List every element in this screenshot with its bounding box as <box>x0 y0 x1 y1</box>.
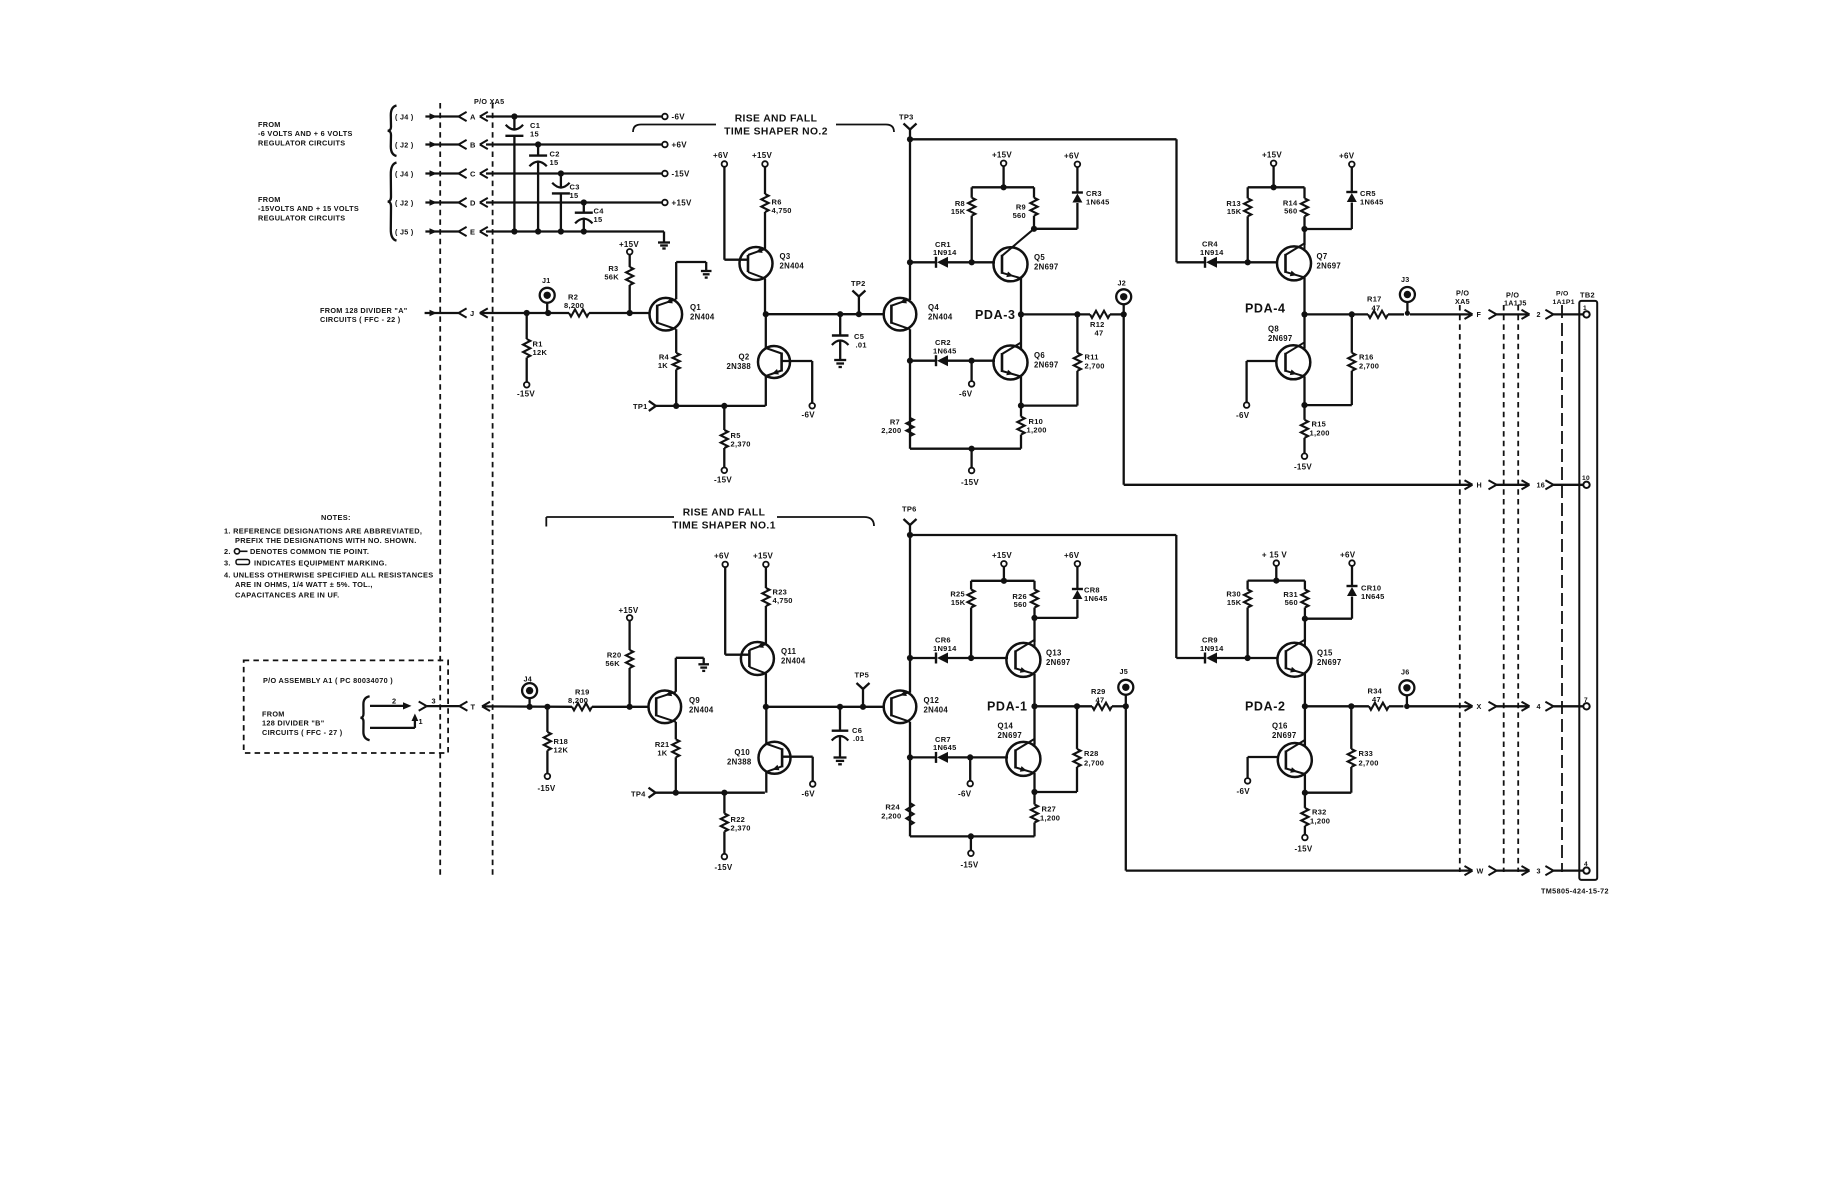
wire Q7 emitter to PDA-4 node <box>1301 277 1307 348</box>
wire +6V to Q11 base <box>725 567 749 655</box>
wire Q13 emitter to PDA-1 node <box>1031 674 1037 745</box>
svg-text:X: X <box>1477 702 1482 711</box>
terminal -15V (PDA-1) <box>960 851 978 870</box>
svg-text:CIRCUITS ( FFC - 22 ): CIRCUITS ( FFC - 22 ) <box>320 315 401 324</box>
diode CR7 1N645 <box>910 735 970 763</box>
svg-text:P/O ASSEMBLY A1 ( PC 8003407: P/O ASSEMBLY A1 ( PC 80034070 ) <box>263 676 393 685</box>
diode CR9 1N914 <box>1176 636 1247 664</box>
svg-text:-6V: -6V <box>1237 787 1251 796</box>
terminal +6V (CR8) <box>1064 551 1080 567</box>
svg-text:-15V: -15V <box>714 863 732 872</box>
svg-text:REGULATOR CIRCUITS: REGULATOR CIRCUITS <box>258 213 345 222</box>
svg-text:+6V: +6V <box>1340 551 1356 560</box>
wire TP6 rail to PDA-2 <box>907 532 1176 658</box>
svg-text:2N697: 2N697 <box>1272 731 1296 740</box>
resistor R18 12K <box>544 707 569 774</box>
terminal -15V (R1) <box>517 382 535 399</box>
svg-text:1N914: 1N914 <box>1200 644 1224 653</box>
svg-text:560: 560 <box>1014 600 1027 609</box>
wire Q10 base to -6V <box>782 757 813 782</box>
resistor R33 2,700 <box>1348 706 1379 792</box>
TB2 terminal 10 <box>1582 475 1590 488</box>
note 2 tie point glyph <box>234 549 247 554</box>
svg-text:+ 15 V: + 15 V <box>1262 551 1288 560</box>
resistor R8 15K <box>951 198 975 263</box>
jack J4 <box>522 675 537 707</box>
resistor R25 15K <box>950 590 974 659</box>
test point TP6 <box>902 505 917 536</box>
svg-text:J6: J6 <box>1401 668 1410 677</box>
svg-text:+15V: +15V <box>672 199 692 208</box>
wire Q8 base to -6V <box>1247 361 1277 402</box>
svg-text:CAPACITANCES ARE IN UF.: CAPACITANCES ARE IN UF. <box>235 591 339 600</box>
svg-text:+15V: +15V <box>753 552 773 561</box>
capacitor C4 15 <box>575 203 604 232</box>
svg-text:( J4 ): ( J4 ) <box>395 113 414 122</box>
svg-text:1N645: 1N645 <box>1361 592 1385 601</box>
arrow 1 (assembly box) <box>370 714 423 728</box>
wire Q15 emitter to PDA-2 node <box>1302 674 1308 746</box>
diode CR5 1N645 <box>1346 167 1383 206</box>
wire CR6 node to Q13 base <box>968 655 1008 661</box>
svg-text:A: A <box>470 113 476 122</box>
resistor R9 560 <box>1013 198 1038 229</box>
wire Q2 emitter <box>765 376 767 406</box>
transistor Q5 2N697 <box>994 229 1059 281</box>
notes text block <box>224 513 434 600</box>
svg-text:+6V: +6V <box>672 141 688 150</box>
resistor R12 47 <box>1090 311 1124 338</box>
svg-text:J1: J1 <box>542 276 551 285</box>
svg-text:Q15: Q15 <box>1317 649 1333 658</box>
svg-text:PREFIX THE DESIGNATIONS WIT: PREFIX THE DESIGNATIONS WITH NO. SHOWN. <box>235 536 417 545</box>
wire Q10/Q11 node to Q12 base <box>766 704 884 710</box>
wire Q2 collector <box>763 311 769 348</box>
svg-text:2N697: 2N697 <box>1317 262 1341 271</box>
resistor R7 2,200 <box>881 418 913 437</box>
svg-text:56K: 56K <box>605 659 620 668</box>
wire Q9 emitter to ground <box>676 658 704 692</box>
wire CR9 node to Q15 base <box>1245 655 1279 661</box>
svg-text:2: 2 <box>392 696 396 705</box>
svg-text:-15V: -15V <box>517 390 535 399</box>
terminal -6V (Q6 base) <box>959 381 974 398</box>
svg-text:2,200: 2,200 <box>881 426 901 435</box>
terminal -15V (R22) <box>714 854 732 872</box>
wire Q16 base to -6V <box>1248 757 1278 778</box>
capacitor C1 15 <box>505 117 540 232</box>
terminal +15V (PDA-4) <box>1262 151 1282 167</box>
resistor R6 4,750 <box>761 167 791 249</box>
svg-text:TP1: TP1 <box>633 402 648 411</box>
wire Q8 emitter to R16 node <box>1301 376 1351 408</box>
terminal -6V (Q16) <box>1237 778 1251 796</box>
svg-text:TIME SHAPER NO.1: TIME SHAPER NO.1 <box>672 521 776 532</box>
arrow 2 (assembly box) <box>370 696 412 709</box>
svg-text:CIRCUITS ( FFC - 27 ): CIRCUITS ( FFC - 27 ) <box>262 728 343 737</box>
terminal board TB2 outline <box>1579 291 1597 880</box>
wire Q6 emitter to R10 node <box>1018 377 1078 409</box>
wire row E ground bus <box>486 228 664 242</box>
resistor R29 47 <box>1091 687 1126 710</box>
svg-text:-15VOLTS AND + 15 VOLTS: -15VOLTS AND + 15 VOLTS <box>258 204 359 213</box>
wire Q2/Q3 node to Q4 base <box>766 311 884 317</box>
diode CR4 1N914 <box>1177 240 1248 268</box>
wire Q3 collector to node <box>764 279 766 315</box>
transistor Q12 2N404 <box>884 691 949 724</box>
svg-text:Q1: Q1 <box>690 303 701 312</box>
wire PDA-4 output <box>1305 311 1369 317</box>
svg-text:TP5: TP5 <box>855 671 870 680</box>
svg-text:P/O: P/O <box>1556 291 1569 298</box>
svg-text:R11: R11 <box>1085 353 1099 362</box>
svg-text:1A1P1: 1A1P1 <box>1553 299 1575 306</box>
terminal +15V (R3) <box>619 240 639 255</box>
svg-text:56K: 56K <box>604 272 619 281</box>
svg-text:R33: R33 <box>1359 749 1374 758</box>
test point TP4 <box>631 788 656 799</box>
terminal +6V (CR10) <box>1340 551 1356 566</box>
svg-text:Q16: Q16 <box>1272 722 1288 731</box>
svg-text:+15V: +15V <box>618 606 638 615</box>
note 3 equipment marking glyph <box>236 560 250 565</box>
title RISE AND FALL TIME SHAPER NO.1 <box>546 508 874 532</box>
wire R26 junction to Q13 collector <box>1033 618 1035 642</box>
svg-text:1N645: 1N645 <box>933 347 957 356</box>
svg-text:-6V: -6V <box>802 411 816 420</box>
svg-text:R32: R32 <box>1312 808 1327 817</box>
svg-text:2N697: 2N697 <box>1046 658 1070 667</box>
resistor R30 15K <box>1226 590 1251 659</box>
svg-text:12K: 12K <box>554 745 569 754</box>
wire PDA-1 supply rail <box>971 567 1034 590</box>
wire X output line <box>1410 705 1473 707</box>
transistor Q16 2N697 <box>1272 722 1312 778</box>
label FROM -15VOLTS AND +15VOLTS REGULATOR CIRCUITS <box>258 195 359 222</box>
transistor Q1 2N404 <box>650 298 715 331</box>
svg-text:+6V: +6V <box>1064 551 1080 560</box>
svg-text:4. UNLESS OTHERWISE SPECIFI: 4. UNLESS OTHERWISE SPECIFIED ALL RESIST… <box>224 571 434 580</box>
TB2 terminal 7 <box>1583 697 1589 710</box>
svg-text:J5: J5 <box>1120 667 1129 676</box>
terminal +15V (PDA-3) <box>992 151 1012 167</box>
svg-text:128 DIVIDER "B": 128 DIVIDER "B" <box>262 719 325 728</box>
output connector row F / 2 <box>1465 310 1584 319</box>
title RISE AND FALL TIME SHAPER NO.2 <box>633 114 894 138</box>
input connector pin B from J2 <box>395 140 488 150</box>
svg-text:( J4 ): ( J4 ) <box>395 170 414 179</box>
wire R31/CR10 node to Q15 <box>1302 597 1352 622</box>
svg-text:2N388: 2N388 <box>727 362 752 371</box>
svg-text:2N697: 2N697 <box>1034 361 1058 370</box>
resistor R32 1,200 <box>1301 793 1330 835</box>
resistor R11 2,700 <box>1074 314 1105 405</box>
wire R9/CR3 node to Q5 collector <box>1031 203 1078 232</box>
svg-text:2.: 2. <box>224 547 231 556</box>
wire Q5 emitter to PDA-3 node <box>1018 278 1024 349</box>
svg-text:Q8: Q8 <box>1268 325 1279 334</box>
wire TP6 down to CR6 node <box>907 535 913 693</box>
terminal +15V (R23) <box>753 552 773 568</box>
resistor R23 4,750 <box>762 567 792 644</box>
svg-text:-6 VOLTS AND + 6 VOLTS: -6 VOLTS AND + 6 VOLTS <box>258 129 353 138</box>
wire row B bus <box>486 141 662 147</box>
resistor R22 2,370 <box>721 793 751 854</box>
wire CR7 node to Q14 base; -6V stub <box>967 754 1008 780</box>
svg-text:15K: 15K <box>1227 207 1242 216</box>
svg-text:2,370: 2,370 <box>731 439 751 448</box>
svg-text:-15V: -15V <box>1294 845 1312 854</box>
svg-text:INDICATES EQUIPMENT MARKING.: INDICATES EQUIPMENT MARKING. <box>254 559 387 568</box>
resistor R26 560 <box>1012 590 1038 618</box>
svg-text:2N697: 2N697 <box>1034 262 1058 271</box>
transistor Q10 2N388 <box>727 742 790 774</box>
svg-text:15: 15 <box>530 129 539 138</box>
svg-text:PDA-1: PDA-1 <box>987 700 1028 714</box>
svg-text:XA5: XA5 <box>1455 297 1470 306</box>
diode CR3 1N645 <box>1072 167 1110 206</box>
svg-text:J2: J2 <box>1118 279 1127 288</box>
svg-text:+6V: +6V <box>1064 152 1080 161</box>
output connector row X / 4 <box>1465 702 1584 711</box>
svg-text:2,370: 2,370 <box>731 823 751 832</box>
svg-text:15: 15 <box>594 215 603 224</box>
tie point +15V <box>662 199 692 208</box>
ground symbol (E bus) <box>658 243 670 249</box>
wire TP3 rail to PDA-4 <box>907 136 1177 262</box>
svg-text:Q10: Q10 <box>734 748 750 757</box>
svg-text:PDA-2: PDA-2 <box>1245 700 1286 714</box>
resistor R17 47 <box>1367 295 1404 319</box>
svg-text:-6V: -6V <box>959 390 973 399</box>
svg-text:Q7: Q7 <box>1317 252 1328 261</box>
terminal -15V (PDA-3) <box>961 468 979 487</box>
wire PDA-3 supply rail <box>972 166 1034 198</box>
svg-text:8,200: 8,200 <box>564 301 584 310</box>
svg-text:560: 560 <box>1013 211 1026 220</box>
svg-text:TB2: TB2 <box>1580 291 1595 300</box>
resistor R20 56K <box>605 621 633 707</box>
svg-text:15: 15 <box>570 191 579 200</box>
wire CR1 node to Q5 base <box>969 259 995 265</box>
svg-text:( J5 ): ( J5 ) <box>395 228 414 237</box>
svg-text:T: T <box>471 702 476 711</box>
svg-text:+6V: +6V <box>713 151 729 160</box>
terminal +15V (PDA-1) <box>992 551 1012 567</box>
wire PDA-1 output <box>1035 703 1093 709</box>
svg-text:D: D <box>470 199 476 208</box>
svg-text:C: C <box>470 170 476 179</box>
label FROM -6 VOLTS AND +6 VOLTS REGULATOR CIRCUITS <box>258 120 353 147</box>
wire CR2 node to Q6 base; -6V stub <box>969 358 996 382</box>
P/O XA5 dashed line (right) <box>1455 289 1470 873</box>
svg-text:J: J <box>470 309 474 318</box>
svg-text:E: E <box>470 228 475 237</box>
svg-text:2N388: 2N388 <box>727 758 752 767</box>
svg-text:2,700: 2,700 <box>1359 759 1379 768</box>
wire Q10 collector <box>765 707 767 744</box>
diode CR2 1N645 <box>910 338 972 366</box>
svg-text:FROM: FROM <box>262 710 285 719</box>
svg-text:+15V: +15V <box>992 151 1012 160</box>
svg-text:.01: .01 <box>856 340 867 349</box>
svg-text:R16: R16 <box>1359 353 1374 362</box>
svg-text:8,200: 8,200 <box>568 696 588 705</box>
svg-text:FROM: FROM <box>258 195 281 204</box>
svg-text:3: 3 <box>432 696 436 705</box>
ground symbol (Q1) <box>701 271 712 278</box>
input connector pin T <box>459 702 490 712</box>
wire PDA-2 supply rail <box>1248 566 1305 590</box>
P/O 1A1P1 dashed line <box>1553 291 1575 873</box>
TB2 terminal 4 <box>1583 861 1589 874</box>
svg-text:15K: 15K <box>1227 598 1242 607</box>
transistor Q2 2N388 <box>727 346 790 378</box>
svg-text:1N645: 1N645 <box>1086 197 1110 206</box>
svg-text:R17: R17 <box>1367 295 1382 304</box>
capacitor C2 15 <box>529 145 560 232</box>
svg-text:1K: 1K <box>658 361 668 370</box>
svg-text:2N697: 2N697 <box>1317 658 1341 667</box>
svg-text:( J2 ): ( J2 ) <box>395 199 414 208</box>
label FROM 128 DIVIDER B CIRCUITS (FFC-27) <box>262 710 343 737</box>
resistor R28 2,700 <box>1073 706 1104 792</box>
svg-text:4: 4 <box>1537 702 1541 711</box>
svg-text:4,750: 4,750 <box>772 206 792 215</box>
svg-text:-15V: -15V <box>672 170 690 179</box>
jack J6 and tie point <box>1399 668 1414 710</box>
wire PDA-3 bottom rail <box>910 446 1021 468</box>
resistor R21 1K <box>655 722 680 793</box>
ground symbol (Q9) <box>698 664 709 671</box>
svg-text:1N645: 1N645 <box>1084 594 1108 603</box>
svg-text:-15V: -15V <box>714 476 732 485</box>
wire PDA-1 bottom rail <box>910 833 1035 850</box>
svg-text:2,700: 2,700 <box>1359 361 1379 370</box>
jack J3 and tie point <box>1400 275 1415 316</box>
svg-text:2N404: 2N404 <box>690 313 715 322</box>
svg-text:3.: 3. <box>224 559 231 568</box>
svg-text:15: 15 <box>550 158 559 167</box>
svg-text:TP4: TP4 <box>631 790 646 799</box>
svg-text:560: 560 <box>1285 598 1298 607</box>
svg-text:-6V: -6V <box>958 790 972 799</box>
svg-text:+6V: +6V <box>1339 152 1355 161</box>
jack J1 <box>540 276 555 313</box>
svg-text:47: 47 <box>1372 303 1381 312</box>
terminal -6V (Q14 base) <box>958 781 973 799</box>
svg-text:-15V: -15V <box>961 478 979 487</box>
wire Q11 collector to node <box>763 674 769 710</box>
transistor Q14 2N697 <box>998 722 1041 776</box>
wire Q16 emitter to R33 node <box>1302 774 1352 796</box>
transistor Q3 2N404 <box>740 247 805 280</box>
test point TP3 <box>899 113 917 140</box>
wire PDA-2 output <box>1305 703 1369 709</box>
input connector pin D from J2 <box>395 198 488 208</box>
svg-text:15K: 15K <box>951 207 966 216</box>
svg-text:2N404: 2N404 <box>781 657 806 666</box>
svg-text:2,700: 2,700 <box>1084 759 1104 768</box>
resistor R10 1,200 <box>1017 406 1046 449</box>
terminal +6V (Q3 base) <box>713 151 729 167</box>
brace for J4/J2 group (rows A-B) <box>388 106 397 157</box>
diode CR1 1N914 <box>910 240 972 268</box>
svg-text:2N697: 2N697 <box>1268 334 1292 343</box>
resistor R4 1K <box>658 329 680 406</box>
terminal -15V (R18) <box>537 774 555 794</box>
ground symbol (C5) <box>834 360 846 367</box>
resistor R5 2,370 <box>721 406 751 468</box>
TB2 terminal 1 <box>1583 305 1590 318</box>
test point TP1 <box>633 401 656 411</box>
capacitor C3 15 <box>552 174 580 232</box>
resistor R34 47 <box>1368 687 1404 710</box>
wire R14/CR5 node to Q7 <box>1301 203 1351 233</box>
svg-text:47: 47 <box>1095 328 1104 337</box>
wire PDA-3 output <box>1021 311 1090 317</box>
terminal -6V (Q10) <box>802 781 816 798</box>
jack J2 <box>1116 279 1131 318</box>
svg-text:4,750: 4,750 <box>773 596 793 605</box>
svg-text:1N645: 1N645 <box>1360 197 1384 206</box>
terminal +15V (PDA-2) <box>1262 551 1288 566</box>
svg-text:J3: J3 <box>1401 275 1410 284</box>
svg-text:R24: R24 <box>885 803 900 812</box>
svg-text:2,700: 2,700 <box>1085 361 1105 370</box>
wire PDA-4 supply rail <box>1248 166 1305 198</box>
wire T input line <box>482 704 649 710</box>
terminal +6V (CR5) <box>1339 152 1355 168</box>
svg-text:P/O XA5: P/O XA5 <box>474 97 504 106</box>
transistor Q13 2N697 <box>1006 640 1070 677</box>
resistor R1 12K <box>523 313 547 382</box>
svg-text:1N914: 1N914 <box>933 248 957 257</box>
wire Q14 emitter to R28 node <box>1031 773 1077 795</box>
svg-text:R27: R27 <box>1042 805 1057 814</box>
svg-text:ARE IN OHMS, 1/4 WATT ± 5%: ARE IN OHMS, 1/4 WATT ± 5%. TOL., <box>235 580 373 589</box>
svg-text:2N404: 2N404 <box>928 313 953 322</box>
resistor R13 15K <box>1226 198 1251 262</box>
svg-text:TP6: TP6 <box>902 505 917 514</box>
ground symbol (C6) <box>834 758 847 765</box>
svg-text:PDA-4: PDA-4 <box>1245 302 1286 316</box>
svg-text:TM5805-424-15-72: TM5805-424-15-72 <box>1541 887 1609 896</box>
svg-text:R15: R15 <box>1312 420 1327 429</box>
capacitor C6 .01 <box>832 707 865 757</box>
terminal -6V (Q2) <box>802 403 816 420</box>
svg-text:3: 3 <box>1537 866 1541 875</box>
svg-text:FROM 128 DIVIDER "A": FROM 128 DIVIDER "A" <box>320 306 408 315</box>
output connector row H / 16 <box>1124 480 1584 489</box>
wire Q12 emitter down <box>907 722 913 837</box>
input connector pin J <box>425 308 488 318</box>
svg-text:1,200: 1,200 <box>1027 425 1047 434</box>
svg-text:H: H <box>1477 481 1483 490</box>
terminal +15V (R20) <box>618 606 638 621</box>
wire J input line <box>480 310 649 316</box>
svg-text:-6V: -6V <box>1236 411 1250 420</box>
svg-text:+15V: +15V <box>1262 151 1282 160</box>
svg-text:Q9: Q9 <box>689 696 700 705</box>
svg-text:F: F <box>1477 310 1482 319</box>
svg-text:16: 16 <box>1537 481 1546 490</box>
svg-text:Q14: Q14 <box>998 722 1014 731</box>
svg-text:2: 2 <box>1537 310 1541 319</box>
svg-text:TP3: TP3 <box>899 113 914 122</box>
terminal +15V (R6) <box>752 151 772 167</box>
wire TP1 line <box>656 403 766 409</box>
